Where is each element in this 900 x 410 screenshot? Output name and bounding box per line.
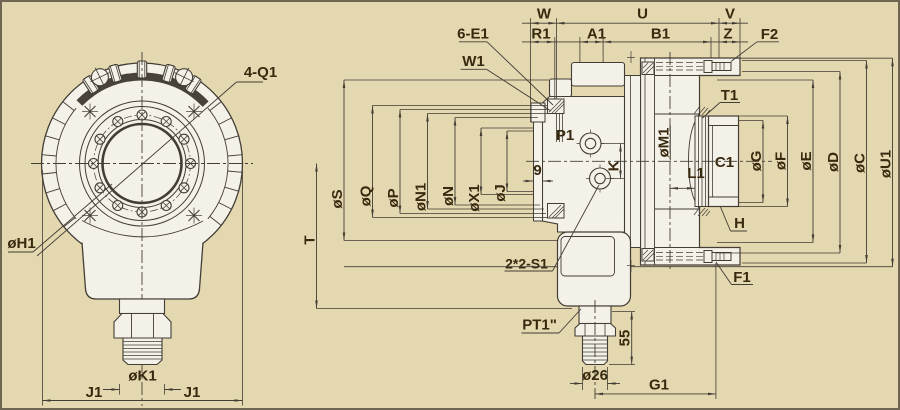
- svg-text:W: W: [537, 6, 552, 23]
- flange underside lines: [655, 75, 700, 77]
- E1 stud top (hatched): [548, 99, 565, 114]
- stud bottom (hatched): [548, 204, 565, 219]
- output cap C1: [709, 116, 739, 207]
- svg-text:L1: L1: [687, 165, 705, 182]
- hidden lines bottom flange: [656, 252, 704, 254]
- bearing rollers on top: [82, 61, 202, 94]
- bell curve around hub: [689, 114, 700, 209]
- dimension oQ: [373, 105, 548, 107]
- motor adapter plate: [625, 76, 641, 248]
- motor recess panel: [561, 237, 615, 277]
- cooling fins left: [42, 102, 75, 227]
- F1 bolt in bottom flange: [704, 251, 712, 263]
- dimension oS: [344, 79, 549, 81]
- svg-text:K: K: [606, 160, 623, 171]
- cooling fin arc left: [56, 108, 76, 219]
- svg-text:2*2-S1: 2*2-S1: [505, 256, 548, 272]
- body internal plate lines: [644, 58, 646, 265]
- svg-text:øN1: øN1: [413, 183, 430, 211]
- hex nut (side): [575, 324, 616, 337]
- worm shaft stub lines: [556, 114, 558, 143]
- flange bolts x12: [89, 110, 196, 217]
- svg-text:T: T: [302, 235, 319, 244]
- svg-text:F1: F1: [733, 269, 751, 286]
- svg-text:6-E1: 6-E1: [457, 26, 489, 43]
- svg-text:øC: øC: [852, 153, 869, 173]
- dimension G1: [715, 263, 717, 399]
- svg-text:øG: øG: [748, 151, 765, 172]
- dimension oG: [739, 120, 763, 122]
- svg-text:G1: G1: [649, 377, 669, 394]
- dimension oC: [742, 60, 867, 62]
- svg-text:øH1: øH1: [7, 235, 35, 252]
- tapped hole center marks on flange plate: [630, 51, 632, 63]
- svg-text:P1: P1: [556, 127, 574, 144]
- svg-text:B1: B1: [651, 26, 670, 43]
- housing interior arc: [82, 221, 203, 237]
- body step lines: [655, 113, 700, 115]
- output shaft collar (front): [120, 299, 165, 314]
- svg-text:Z: Z: [723, 26, 732, 43]
- svg-text:F2: F2: [761, 26, 779, 43]
- motor shaft collar (side): [579, 306, 611, 324]
- 4-Q1 hole marks x4: [82, 104, 202, 224]
- svg-text:PT1": PT1": [522, 317, 557, 334]
- dimension oN1: [428, 113, 548, 115]
- F2 bolt in top flange: [704, 61, 712, 73]
- dimension R1 A1 B1 Z: [522, 41, 748, 43]
- dimension 55: [612, 311, 635, 313]
- dimension oD: [742, 71, 840, 73]
- bolt circle centerline: [94, 115, 191, 212]
- svg-text:øK1: øK1: [128, 368, 156, 385]
- hidden lines top flange: [656, 62, 704, 64]
- splined shaft (front): [123, 338, 162, 365]
- 4-Q1 diagonal leader: [37, 82, 237, 256]
- svg-text:U: U: [637, 6, 648, 23]
- worm housing main block: [543, 97, 625, 233]
- motor lower housing: [558, 232, 631, 306]
- svg-text:øJ: øJ: [492, 184, 509, 202]
- worm housing top step A: [572, 63, 625, 87]
- svg-text:J1: J1: [184, 384, 201, 401]
- hub rings: [695, 116, 709, 207]
- side view horizontal centerline: [526, 160, 772, 162]
- long bottom extension line: [344, 266, 558, 268]
- svg-text:R1: R1: [531, 26, 550, 43]
- bearing hatch above hub: [694, 106, 700, 114]
- hex nut (front): [114, 314, 171, 339]
- dimension oK1: [119, 384, 121, 395]
- E1 stud block top flange (hatched): [642, 62, 654, 75]
- dimension oU1: [734, 57, 893, 59]
- bearing balls with crosshairs: [86, 63, 198, 91]
- bearing hatch below hub: [694, 207, 700, 215]
- svg-text:øD: øD: [825, 152, 842, 172]
- svg-text:J1: J1: [86, 384, 103, 401]
- svg-text:øF: øF: [773, 152, 790, 170]
- housing lower body (front view): [82, 243, 203, 300]
- motor shaft centerline: [594, 300, 596, 399]
- front view horizontal centerline: [31, 163, 253, 165]
- svg-text:A1: A1: [587, 26, 606, 43]
- dimension oJ: [507, 130, 534, 132]
- dimension o26: [582, 367, 584, 390]
- svg-text:ø26: ø26: [582, 367, 608, 384]
- side view: main gearbox body with flange wings: [641, 58, 741, 265]
- cooling fin arc right: [208, 108, 228, 219]
- svg-text:H: H: [734, 215, 745, 232]
- dimension J1 J1: [42, 170, 44, 406]
- dimension oE: [717, 79, 813, 81]
- svg-text:øS: øS: [329, 189, 346, 208]
- dimension oP: [400, 109, 547, 111]
- svg-text:V: V: [725, 6, 735, 23]
- top dim row extension lines: [530, 18, 532, 122]
- stud block bottom flange (hatched): [642, 249, 654, 262]
- svg-text:øU1: øU1: [878, 150, 895, 178]
- dimension W U V: [522, 22, 748, 24]
- dimension oF: [739, 115, 788, 117]
- svg-text:9: 9: [533, 162, 541, 179]
- dimension T: [317, 308, 573, 310]
- worm housing top step B: [550, 79, 572, 97]
- inner bore circle: [98, 120, 186, 208]
- svg-text:øX1: øX1: [466, 184, 483, 212]
- svg-text:T1: T1: [721, 87, 739, 104]
- svg-text:C1: C1: [715, 154, 734, 171]
- flange ring circles: [80, 101, 205, 226]
- motor bolt 2: [586, 178, 614, 180]
- gear ring dark band: [77, 72, 209, 106]
- motor face plate (9 thick): [534, 122, 543, 221]
- outer housing circle: [42, 63, 243, 264]
- svg-text:55: 55: [617, 330, 634, 347]
- svg-text:øQ: øQ: [358, 185, 375, 206]
- motor bolt 1: [577, 143, 605, 145]
- svg-text:4-Q1: 4-Q1: [244, 64, 277, 81]
- worm bearing boss tip: [531, 103, 545, 122]
- svg-text:W1: W1: [462, 53, 485, 70]
- dimension oN: [455, 117, 538, 119]
- dimension oX1: [481, 127, 534, 129]
- svg-text:øE: øE: [798, 151, 815, 170]
- svg-text:øP: øP: [385, 188, 402, 207]
- cooling fins right: [210, 102, 242, 226]
- svg-text:øN: øN: [440, 186, 457, 206]
- front view vertical centerline: [141, 52, 143, 406]
- splined shaft (side): [583, 336, 608, 365]
- side view vertical centerline: [669, 52, 671, 272]
